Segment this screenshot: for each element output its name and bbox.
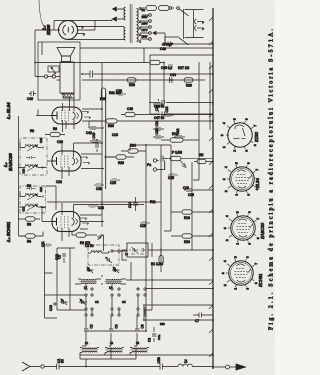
svg-text:EZ80: EZ80 [46, 24, 51, 35]
wire AGC to tuner [144, 264, 152, 310]
svg-text:C15: C15 [110, 181, 116, 185]
chassis junction dots [212, 43, 214, 368]
svg-text:4700pF: 4700pF [162, 43, 173, 47]
FI1 secondary line [46, 186, 57, 210]
resistor R4 [26, 234, 36, 238]
svg-text:R29: R29 [186, 84, 192, 88]
line y121 [106, 156, 116, 158]
EABC80 electrode side leads [62, 143, 102, 179]
output transformer primary bumps [62, 93, 75, 94]
wires tuner upper rails [57, 248, 86, 310]
cap C11 [44, 243, 52, 247]
svg-text:R20: R20 [184, 240, 190, 244]
svg-text:ECH81: ECH81 [258, 274, 263, 288]
svg-text:C14: C14 [128, 202, 132, 208]
svg-text:R28: R28 [129, 83, 135, 87]
cap C46 [29, 91, 36, 96]
power transformer: winding W1 [124, 7, 126, 20]
svg-text:C: C [87, 269, 91, 271]
svg-text:R11: R11 [150, 200, 156, 204]
ballast [159, 6, 170, 11]
trimmer osc [97, 235, 103, 240]
plug prongs [195, 19, 197, 31]
EL84 internals [53, 112, 58, 120]
cap C33 [163, 114, 174, 116]
svg-text:R1 2,2M: R1 2,2M [151, 262, 163, 266]
speaker wires [40, 77, 74, 99]
earth arrow [236, 364, 246, 370]
svg-text:L1: L1 [85, 341, 89, 345]
filter electrolytic C48 [150, 99, 165, 105]
trimmer Ct4 [60, 299, 68, 305]
FI1 caps [26, 187, 36, 190]
cap C31 [153, 128, 164, 130]
FI2 coil b [20, 143, 42, 148]
series cap on x301 [90, 71, 93, 78]
line y192 [191, 162, 193, 250]
svg-text:127V: 127V [142, 28, 148, 32]
line y161 [160, 145, 162, 264]
capacitor C1 [57, 364, 161, 370]
output transformer body [60, 62, 74, 93]
svg-text:C10: C10 [49, 305, 53, 311]
svg-text:R9: R9 [53, 127, 57, 131]
band switch contacts column 1 [85, 314, 87, 316]
tube EZ80 [59, 21, 78, 40]
EL84 electrode side leads [63, 97, 75, 132]
heater dropping resistor R31 [101, 88, 105, 98]
output jacks [44, 75, 47, 78]
resistor R19 [182, 210, 192, 214]
svg-text:C38: C38 [116, 89, 122, 93]
line y210 [209, 62, 211, 130]
svg-text:C39: C39 [96, 187, 102, 191]
cap C45 [168, 65, 173, 67]
svg-text:EL84: EL84 [255, 178, 260, 188]
mains enclosure lines [80, 48, 213, 63]
antenna [22, 362, 40, 371]
line x301 [82, 73, 213, 75]
EL84 leads [36, 109, 102, 121]
heater rail a [101, 63, 103, 227]
tube EABC80 [52, 151, 81, 171]
osc coil in box [88, 251, 105, 253]
FI1 coil b [20, 192, 42, 197]
switch-plug link line [183, 9, 185, 39]
B+ feed line [35, 42, 150, 116]
tube ECH81 [52, 212, 80, 232]
cap C19 [140, 222, 150, 224]
svg-text:EZ80: EZ80 [254, 131, 259, 142]
cap C40 [90, 140, 101, 142]
heater wires to tubes [77, 21, 95, 31]
EL84 electrode arrows [82, 112, 91, 119]
antenna terminal [41, 365, 44, 368]
cathode resistor R30 [106, 119, 117, 123]
wire antenna to coils [80, 348, 136, 367]
cap C10 [53, 302, 57, 306]
grid chain line [82, 79, 205, 81]
socket EZ80 [220, 118, 257, 152]
capacitor C2ant [160, 364, 178, 370]
tube EL84 [52, 107, 82, 124]
svg-text:C13: C13 [98, 206, 104, 210]
EABC80 internals [53, 157, 57, 165]
choke L earth [178, 364, 213, 366]
wire grid line [101, 262, 131, 284]
resistor R1 [159, 256, 163, 265]
svg-text:C46: C46 [27, 97, 33, 101]
svg-text:R23: R23 [118, 161, 124, 165]
svg-text:C43: C43 [127, 107, 133, 111]
svg-text:C53: C53 [157, 357, 161, 363]
FI1 trimmer b [27, 194, 38, 200]
resistor R22 [197, 159, 206, 163]
svg-text:C5: C5 [122, 300, 126, 304]
mains switch [169, 7, 172, 10]
svg-text:R16: R16 [100, 97, 106, 101]
trimmer Ct1 [79, 299, 87, 305]
paper noise [8, 12, 266, 369]
AGC line [86, 331, 146, 333]
svg-text:C12: C12 [55, 254, 59, 260]
coil L9/L10 [106, 283, 126, 284]
resistor R24 [128, 149, 138, 153]
resistor R28 [127, 78, 136, 82]
switch wires [86, 284, 145, 314]
coil return bus [80, 353, 213, 356]
svg-text:R3: R3 [27, 223, 31, 227]
trimmer Ct2 [86, 267, 94, 273]
coil L3/L4 [105, 351, 122, 352]
cap C28 [168, 174, 178, 176]
resistor R29 [184, 78, 193, 82]
resistor R25 [50, 132, 60, 136]
cap C41 [96, 139, 98, 152]
AGC feed line over tuner [45, 243, 86, 318]
caps detector cluster: cap C30 [153, 136, 164, 138]
B+ from rectifier [35, 30, 54, 63]
cap C9 [62, 254, 66, 263]
svg-text:110V: 110V [142, 35, 148, 39]
svg-text:C24: C24 [39, 138, 43, 143]
svg-text:C28: C28 [168, 176, 174, 180]
wire [44, 366, 56, 368]
series cap Ca2 [109, 316, 114, 346]
EABC80 leads [47, 154, 104, 169]
svg-text:R30: R30 [108, 124, 114, 128]
svg-text:L7: L7 [84, 286, 88, 290]
svg-text:Pu: Pu [147, 163, 151, 167]
mains plug [185, 10, 204, 38]
svg-text:50: 50 [61, 359, 65, 363]
svg-text:Ł₄ EL84: Ł₄ EL84 [6, 102, 11, 120]
detector load resistor R12 [170, 138, 183, 142]
EZ80 leads [54, 19, 124, 40]
ECH81 leads [42, 208, 104, 230]
svg-text:R19: R19 [184, 216, 190, 220]
heater rail b [105, 93, 107, 189]
svg-text:C11: C11 [41, 241, 45, 247]
PU wires [157, 161, 165, 170]
coil L5/L6 [130, 351, 147, 352]
svg-text:C29: C29 [183, 186, 189, 190]
svg-text:C17: C17 [22, 206, 26, 211]
svg-text:C33: C33 [165, 106, 169, 112]
chassis ground bus [212, 8, 214, 369]
svg-text:C22: C22 [56, 180, 62, 184]
FI1 trimmer a [27, 205, 38, 211]
svg-text:EABC80: EABC80 [8, 153, 13, 171]
speaker [62, 56, 71, 62]
FI1 coil a [19, 205, 46, 207]
cap C13 [88, 205, 98, 207]
svg-text:C45 0,1: C45 0,1 [161, 66, 172, 70]
line y171 [164, 145, 171, 231]
resistor R23 [116, 155, 126, 159]
trimmer Ct3 [112, 267, 120, 273]
ECH81 plate drop wire [74, 204, 145, 206]
output box [38, 42, 80, 100]
FI1 to detector line [47, 201, 161, 203]
FI2 coil a [18, 165, 47, 167]
ECH81 electrode side leads [58, 203, 74, 241]
svg-text:R27 1M: R27 1M [178, 66, 190, 70]
winding W2 [124, 27, 126, 40]
transformer core [130, 4, 132, 43]
padder cap [152, 327, 157, 342]
svg-text:L5: L5 [136, 341, 140, 345]
filter electrolytic C47 [150, 111, 165, 117]
svg-text:R12: R12 [172, 132, 178, 136]
selector arrow [153, 31, 165, 34]
band switch contacts column 2 [85, 294, 87, 296]
svg-text:C3: C3 [95, 300, 99, 304]
tuner bottom vertical wires [126, 250, 213, 320]
osc section dashed box [88, 245, 119, 265]
svg-text:C35: C35 [188, 193, 194, 197]
cap C14 [133, 197, 138, 211]
svg-text:R2 27k: R2 27k [80, 241, 91, 245]
svg-text:C48 50: C48 50 [154, 105, 165, 109]
cap C34 [153, 103, 164, 105]
cathode cap C43 [125, 112, 135, 116]
FI2 trimmer a [27, 165, 38, 171]
svg-text:C4: C4 [115, 324, 119, 328]
ECH81 electrode arrows [80, 218, 89, 224]
cap C7 [193, 313, 213, 318]
socket EL84 [222, 162, 259, 196]
svg-text:L3: L3 [110, 341, 114, 345]
filter resistor [150, 60, 160, 64]
series cap C36 [161, 156, 167, 162]
padder trimmers in box [129, 247, 139, 254]
FI2 caps [26, 156, 36, 159]
osc switch contacts [111, 250, 113, 252]
socket EABC80 [223, 211, 260, 245]
osc trimmer in box [106, 257, 113, 263]
svg-text:160V: 160V [142, 22, 148, 26]
svg-text:C: C [113, 269, 117, 271]
EZ80 internals [63, 25, 74, 35]
FI2 trimmer b [27, 145, 38, 151]
EZ80 electrode arrows [76, 27, 85, 36]
svg-text:P 0,5M: P 0,5M [172, 151, 182, 155]
coupling cap C42 [89, 121, 104, 129]
primary winding taps [137, 9, 139, 42]
series cap Ca3 [134, 316, 140, 346]
svg-text:C6: C6 [141, 324, 145, 328]
svg-text:R24: R24 [130, 144, 136, 148]
cap C35 [184, 189, 213, 191]
fuse [146, 6, 157, 11]
tone network [48, 66, 59, 72]
socket ECH81 [221, 256, 258, 290]
tap circles [139, 41, 141, 43]
svg-text:C7: C7 [195, 319, 199, 323]
svg-text:390: 390 [160, 322, 165, 326]
output transformer secondary zigzag [63, 96, 72, 99]
selector wires [140, 15, 149, 39]
svg-text:C19: C19 [140, 224, 146, 228]
svg-text:EABC80: EABC80 [260, 222, 265, 239]
series cap Ca1 [82, 316, 89, 346]
svg-text:C40: C40 [92, 132, 96, 138]
oscillator coil bank: coil L7/L8 [75, 283, 96, 284]
leader curve [39, 0, 44, 26]
volume potentiometer P1 [170, 156, 181, 160]
svg-text:Ł₂ ECH81: Ł₂ ECH81 [6, 221, 11, 243]
svg-text:C26: C26 [57, 140, 63, 144]
svg-text:C8: C8 [148, 338, 152, 342]
series cap C44 [170, 77, 173, 83]
chassis hatch ticks [209, 17, 213, 357]
svg-text:C30: C30 [155, 128, 159, 134]
wire detector joins [130, 145, 171, 151]
heater arrows [113, 7, 125, 21]
svg-text:C4a: C4a [157, 334, 161, 340]
cap C32 [174, 136, 185, 138]
ECH81 internals [53, 218, 57, 226]
svg-text:C42: C42 [86, 131, 92, 135]
earth terminal [213, 366, 226, 368]
svg-text:R4: R4 [27, 240, 31, 244]
cap C39 [94, 184, 104, 186]
voltage selector terminals [149, 38, 152, 41]
resistor R3 [26, 217, 36, 221]
svg-text:C18: C18 [39, 187, 43, 192]
svg-text:C23: C23 [22, 168, 26, 173]
top rail B+ [19, 116, 26, 236]
svg-text:220V: 220V [142, 15, 148, 19]
svg-text:L9: L9 [109, 286, 113, 290]
EABC80 electrode arrows [81, 157, 90, 164]
cap C15 [110, 179, 120, 181]
svg-text:R6: R6 [27, 184, 31, 188]
svg-text:C16: C16 [112, 133, 118, 137]
line y199 [193, 62, 199, 180]
svg-text:R8: R8 [30, 129, 34, 133]
svg-text:C47 50: C47 50 [154, 116, 165, 120]
svg-text:1M: 1M [199, 153, 204, 157]
svg-text:Fig. 2.1. Schema de principiu: Fig. 2.1. Schema de principiu a radiorec… [269, 27, 275, 330]
oscillator padder box [127, 243, 148, 257]
grid resistor R2 [76, 233, 86, 237]
PU terminals [153, 168, 156, 171]
resistor R20 [182, 234, 192, 238]
cap C38 [116, 93, 126, 95]
svg-text:C2: C2 [90, 324, 94, 328]
coil L1/L2 [80, 351, 97, 352]
cap C49 [168, 42, 213, 47]
